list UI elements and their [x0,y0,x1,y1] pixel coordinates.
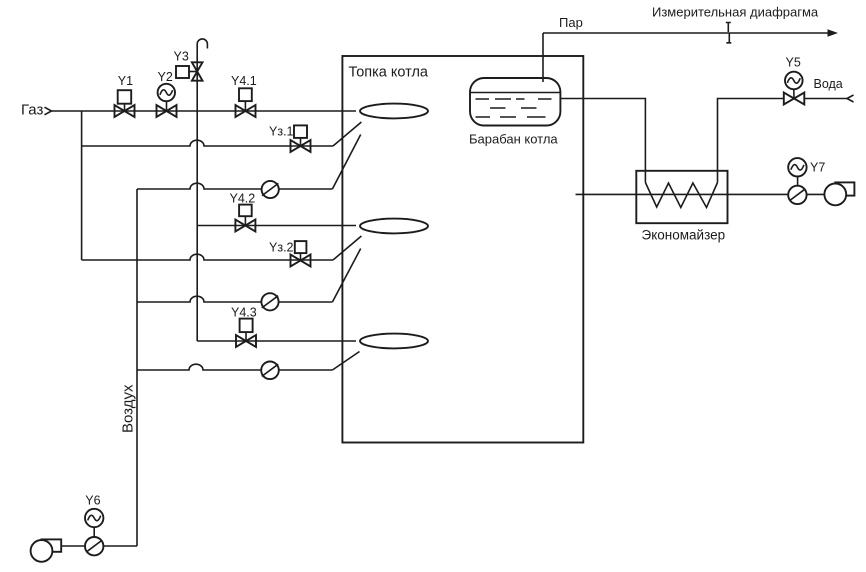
wire air line 1 (with jump) [137,183,332,189]
wire economizer outlet riser to Y5 [718,99,785,183]
valve Y4.3 stem [245,332,247,341]
valve Yз.2 stem [300,253,302,260]
svg-text:Газ: Газ [21,102,43,119]
svg-text:Y4.3: Y4.3 [231,306,257,320]
wire air line 3 (with jump) [137,364,332,370]
wire igniter line 2 (with jump) [82,254,333,260]
economizer coil zigzag [645,183,717,208]
svg-text:Пар: Пар [559,15,583,30]
wire air 3 diagonal to burner 3 [332,352,359,371]
svg-text:Измерительная диафрагма: Измерительная диафрагма [652,5,819,20]
wire gas line burner 2 [197,225,356,227]
svg-text:Y3: Y3 [174,50,189,64]
svg-text:Воздух: Воздух [120,384,137,433]
damper on air line 2 [261,293,278,310]
svg-text:Y4.1: Y4.1 [231,74,257,88]
actuator square Y4.2 [239,205,252,217]
valve Y4.1 stem [244,101,246,111]
wire gas main line [51,110,356,112]
valve Y1 body [115,105,135,117]
node steam arrow [828,29,839,36]
drum water dashes row 1 [476,98,552,100]
wire feedwater from drum to economizer [560,99,645,183]
wire water inlet line [805,98,848,100]
drum water dashes row 2 [490,107,537,109]
valve Y3 body (vertical) [192,62,203,80]
node water inlet arrow [847,95,854,102]
wire igniter 2 diagonal to burner 2 [333,236,361,260]
burner 3 ellipse [360,334,428,349]
wire gas igniter header vertical [81,111,83,260]
svg-text:Экономайзер: Экономайзер [642,228,726,243]
damper on air line 1 [262,181,279,198]
fan flue exhauster body box [835,182,854,195]
actuator square Y3 [176,66,189,78]
fan air blower body box [42,539,62,551]
actuator square Yз.2 [295,241,307,253]
actuator square Y4.3 [240,319,253,333]
boiler drum vessel [470,78,560,126]
burner 2 ellipse [360,219,428,234]
svg-text:Yз.1: Yз.1 [269,125,294,139]
actuator stem Y2 [166,101,168,111]
actuator circle Y7 [788,158,806,176]
wire igniter line 1 (with jump over gas header) [82,140,333,146]
actuator circle Y2 [158,84,175,101]
valve Y4.3 body [236,335,256,347]
wire air 1 diagonal to burner 1 [332,135,360,190]
furnace box Топка котла [342,56,583,443]
wire bottom air supply line [61,545,137,547]
wire gas burner header vertical [196,111,198,341]
wire gas line burner 3 [197,340,356,342]
actuator stem Y7 [797,167,799,194]
svg-text:Барабан котла: Барабан котла [469,132,558,147]
svg-text:Y7: Y7 [810,161,825,175]
fan flue exhauster circle [824,184,846,206]
wire air 2 diagonal to burner 2 [332,249,360,303]
economizer box [636,171,727,223]
actuator stem Y3 [189,71,197,73]
valve Yз.1 body [291,140,311,152]
actuator stem Y5 [793,89,795,99]
svg-text:Yз.2: Yз.2 [269,241,294,255]
svg-text:Y1: Y1 [118,74,133,88]
valve Y5 body [784,93,805,105]
damper on air line 3 [261,362,279,380]
valve Y4.2 body [235,220,255,232]
actuator stem Y6 [93,518,95,546]
damper Y7 [788,186,806,204]
actuator square Y1 [118,90,132,104]
damper Y6 [85,537,103,555]
wire steam line to diaphragm [543,32,830,34]
wire flue gas line through economizer [576,193,825,195]
burner 1 ellipse [360,104,428,119]
valve Y1 stem [124,104,126,111]
valve Y2 body [157,105,177,117]
wire vent line Y3 with hook [197,39,207,111]
svg-text:Вода: Вода [814,77,843,91]
svg-text:Y4.2: Y4.2 [230,192,256,206]
wire steam riser from drum [542,33,544,82]
svg-text:Y5: Y5 [786,56,801,70]
valve Yз.2 body [291,255,311,267]
actuator square Y4.1 [239,88,252,101]
measuring diaphragm orifice symbol [726,23,732,43]
wire air line 2 (with jump) [137,296,332,302]
actuator circle Y6 [85,509,103,527]
valve Yз.1 stem [300,138,302,146]
svg-text:Y6: Y6 [85,494,100,508]
wire igniter 1 diagonal to burner 1 [333,122,361,146]
actuator circle Y5 [785,72,803,90]
fan air blower circle [31,540,53,562]
wire air header vertical [136,189,138,546]
valve Y4.2 stem [244,216,246,225]
node gas inlet arrow [45,107,52,115]
valve Y4.1 body [236,105,256,117]
svg-text:Топка котла: Топка котла [349,65,429,81]
drum water dashes row 3 [476,116,546,118]
actuator square Yз.1 [294,125,307,137]
drum water level line [470,92,560,94]
svg-text:Y2: Y2 [158,70,173,84]
